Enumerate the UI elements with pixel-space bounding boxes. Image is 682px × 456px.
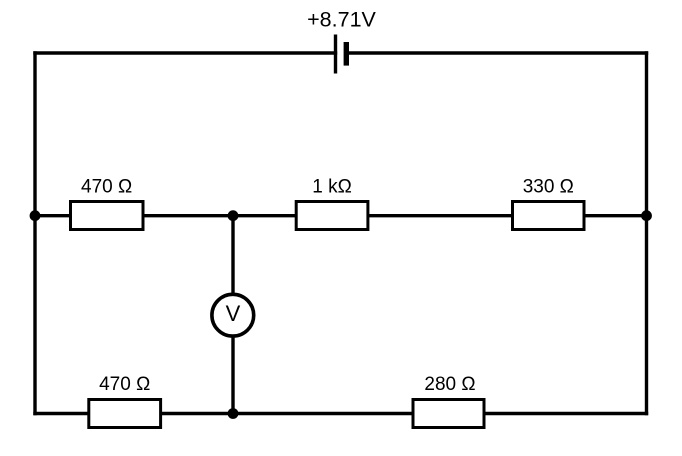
svg-text:330 Ω: 330 Ω xyxy=(523,176,574,197)
svg-text:470 Ω: 470 Ω xyxy=(81,176,132,197)
wire top-right segment xyxy=(346,51,646,54)
resistor R5 value label 280 ohm xyxy=(424,374,475,395)
svg-text:V: V xyxy=(226,301,241,326)
junction node left xyxy=(30,210,41,221)
resistor R1 value label 470 ohm xyxy=(81,176,132,197)
wire top-left segment xyxy=(35,51,336,54)
svg-text:470 Ω: 470 Ω xyxy=(99,374,150,395)
resistor R3 value label 330 ohm xyxy=(523,176,574,197)
wire bottom horizontal xyxy=(35,412,647,415)
svg-text:1 kΩ: 1 kΩ xyxy=(312,176,352,197)
junction node bottom xyxy=(228,408,239,419)
svg-text:+8.71V: +8.71V xyxy=(307,8,376,32)
junction node center xyxy=(228,210,239,221)
resistor R2 body xyxy=(296,202,368,230)
battery V1 positive plate xyxy=(334,35,337,74)
svg-text:280 Ω: 280 Ω xyxy=(424,374,475,395)
wire middle horizontal xyxy=(35,214,647,217)
voltmeter M1 body xyxy=(212,294,254,336)
resistor R1 body xyxy=(71,202,144,230)
wire left vertical xyxy=(33,53,36,414)
resistor R4 body xyxy=(89,400,161,428)
resistor R2 value label 1 kohm xyxy=(312,176,352,197)
battery V1 negative plate xyxy=(344,42,349,66)
resistor R5 body xyxy=(413,400,484,428)
wire right vertical xyxy=(645,53,648,414)
voltmeter M1 letter V xyxy=(226,301,241,326)
wire center vertical xyxy=(231,216,234,414)
battery V1 value label +8.71V xyxy=(307,8,376,32)
resistor R3 body xyxy=(513,202,585,230)
resistor R4 value label 470 ohm xyxy=(99,374,150,395)
junction node right xyxy=(641,210,652,221)
